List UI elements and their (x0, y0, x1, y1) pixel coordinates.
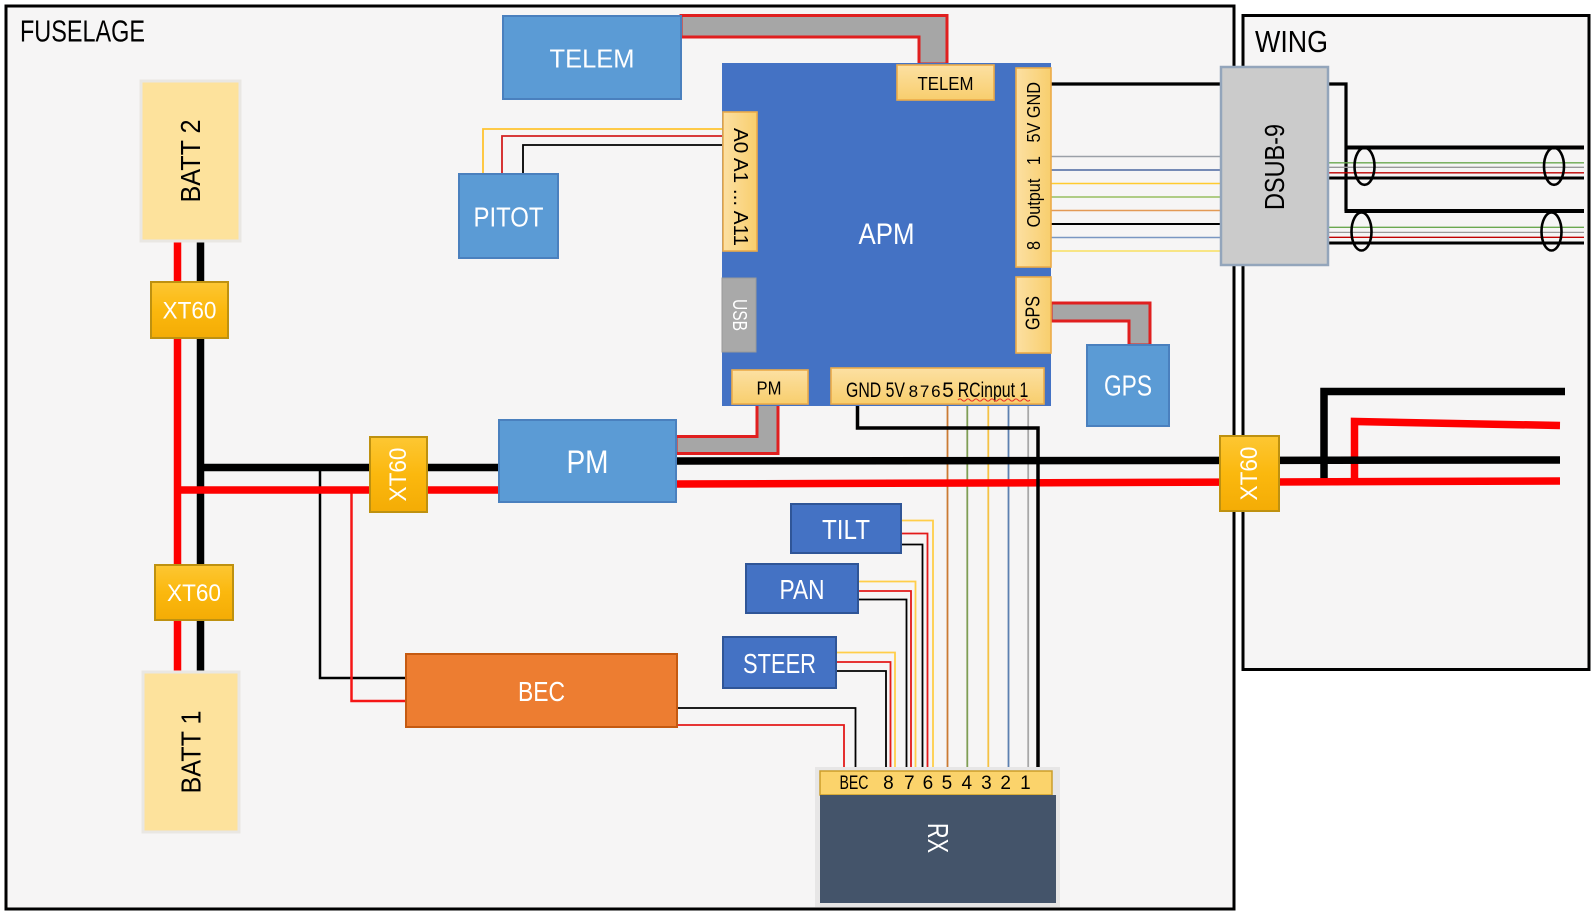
battery BATT 1 (143, 672, 239, 832)
main black power bus (197, 460, 1560, 468)
svg-text:XT60: XT60 (163, 298, 217, 325)
svg-text:PAN: PAN (780, 574, 825, 605)
battery BATT 2 (141, 81, 240, 241)
wire rcinput ch4 green (966, 405, 968, 770)
rcinput spellcheck squiggle (958, 399, 1030, 401)
servo STEER (723, 637, 836, 688)
module PM (499, 420, 676, 502)
svg-text:STEER: STEER (743, 648, 816, 679)
apm tab analog A0-A11 (723, 112, 757, 251)
wire output orange (1051, 210, 1222, 212)
wire pitot yellow (483, 129, 722, 176)
svg-text:RX: RX (921, 823, 953, 853)
gps cable APM-to-GPS (1051, 303, 1150, 345)
apm tab RCinput (831, 368, 1044, 404)
servo PAN (746, 564, 858, 613)
bundle1 green conductor (1329, 162, 1584, 164)
svg-text:6: 6 (923, 773, 934, 794)
pan servo black wire (859, 600, 907, 771)
bec feed red wire (352, 491, 406, 701)
svg-text:BATT 1: BATT 1 (176, 711, 207, 794)
battery black lead (197, 238, 205, 675)
connector XT60 bottom (155, 565, 233, 620)
svg-text:8: 8 (909, 382, 918, 401)
receiver RX outer (815, 767, 1060, 907)
svg-text:PITOT: PITOT (474, 202, 544, 233)
wire output yellow (1051, 183, 1222, 185)
svg-text:GPS: GPS (1104, 371, 1152, 403)
connector XT60 top (151, 282, 228, 338)
apm tab Output (1016, 68, 1051, 267)
bundle2 green conductor (1329, 226, 1584, 228)
connector XT60 right (1220, 436, 1279, 511)
wire rcinput ch5 orange (947, 405, 949, 770)
apm tab GPS (1016, 277, 1051, 353)
steer servo yellow wire (836, 653, 895, 771)
module TELEM (503, 16, 681, 99)
svg-text:4: 4 (962, 773, 973, 794)
bundle1 left ellipse (1355, 148, 1375, 185)
wire gnd-5v black top run (1051, 84, 1346, 211)
svg-text:2: 2 (1000, 773, 1011, 794)
fuselage enclosure (6, 6, 1234, 909)
svg-text:XT60: XT60 (1236, 447, 1263, 501)
wire rcinput ch2 blue (1008, 405, 1010, 770)
wire output1 gray (1051, 156, 1222, 158)
receiver RX body (820, 795, 1056, 903)
svg-text:WING: WING (1255, 24, 1328, 59)
svg-text:USB: USB (728, 299, 750, 331)
svg-text:PM: PM (757, 378, 782, 399)
tilt servo yellow wire (901, 521, 933, 771)
wire rcinput ch1 gray (1027, 405, 1029, 770)
svg-text:TILT: TILT (822, 514, 870, 545)
bec feed black wire (320, 470, 405, 678)
connector XT60 mid (370, 437, 427, 512)
wire output blue2 (1051, 237, 1222, 239)
wing branch black wire (1324, 392, 1565, 485)
svg-text:7: 7 (904, 773, 915, 794)
wing cable bundle 1 outline (1345, 146, 1585, 150)
svg-text:GND 5V: GND 5V (846, 379, 905, 402)
svg-text:TELEM: TELEM (550, 44, 635, 74)
svg-text:TELEM: TELEM (918, 73, 974, 94)
bundle2 right ellipse (1542, 213, 1562, 251)
svg-text:3: 3 (981, 773, 992, 794)
svg-text:8 Output 1 5V GND: 8 Output 1 5V GND (1023, 82, 1044, 250)
wire rcinput gnd black (858, 404, 1039, 768)
main red power bus (174, 481, 1560, 490)
svg-text:DSUB-9: DSUB-9 (1259, 124, 1290, 210)
wire rcinput ch3 yellow (987, 405, 989, 770)
connector DSUB-9 (1221, 67, 1328, 265)
steer servo red wire (836, 662, 891, 770)
wire output black (1051, 223, 1222, 225)
svg-text:7: 7 (920, 382, 929, 401)
svg-text:PM: PM (567, 444, 609, 480)
svg-text:APM: APM (859, 218, 915, 251)
receiver RX header strip (820, 771, 1052, 795)
wing enclosure (1243, 16, 1589, 670)
steer servo black wire (836, 671, 886, 770)
svg-text:BEC: BEC (840, 773, 869, 794)
apm tab USB (722, 278, 756, 352)
svg-text:6: 6 (931, 382, 940, 401)
tilt servo red wire (901, 534, 928, 771)
power module cable PM-to-APM (676, 404, 778, 454)
wire output yellow2 (1051, 250, 1222, 252)
module GPS (1087, 345, 1169, 426)
bec output red wire (677, 725, 844, 770)
svg-text:GPS: GPS (1023, 296, 1045, 330)
bundle1 gray conductor (1329, 166, 1584, 168)
pan servo red wire (859, 591, 912, 770)
battery red lead (174, 238, 182, 675)
wire pitot red (502, 136, 722, 176)
svg-text:XT60: XT60 (385, 448, 412, 502)
apm tab TELEM (897, 65, 994, 100)
bec output black wire (677, 708, 856, 770)
wing branch red wire (1355, 422, 1561, 482)
bundle2 red conductor (1329, 236, 1584, 238)
module PITOT (459, 174, 558, 258)
tilt servo black wire (901, 545, 923, 771)
wire output green (1051, 196, 1222, 198)
wing cable bundle 2 outline (1345, 209, 1585, 213)
bundle1 red conductor (1329, 172, 1584, 174)
wire pitot black (523, 145, 722, 176)
svg-text:FUSELAGE: FUSELAGE (20, 14, 145, 49)
bundle1 right ellipse (1544, 148, 1564, 185)
svg-text:1: 1 (1020, 773, 1031, 794)
wire output blue (1051, 169, 1222, 171)
svg-text:8: 8 (883, 773, 894, 794)
regulator BEC (406, 654, 677, 727)
autopilot APM (722, 63, 1051, 406)
svg-text:XT60: XT60 (167, 580, 221, 607)
svg-text:5: 5 (942, 773, 953, 794)
svg-text:5: 5 (942, 379, 954, 402)
servo TILT (791, 504, 901, 553)
pan servo yellow wire (859, 582, 916, 771)
bundle2 left ellipse (1352, 213, 1372, 251)
svg-text:A0 A1 ... A11: A0 A1 ... A11 (729, 128, 751, 246)
svg-text:BATT 2: BATT 2 (175, 120, 206, 203)
svg-text:BEC: BEC (518, 676, 565, 707)
apm tab PM (732, 370, 808, 404)
bundle2 gray conductor (1329, 231, 1584, 233)
telemetry cable TELEM-to-APM (681, 16, 947, 65)
